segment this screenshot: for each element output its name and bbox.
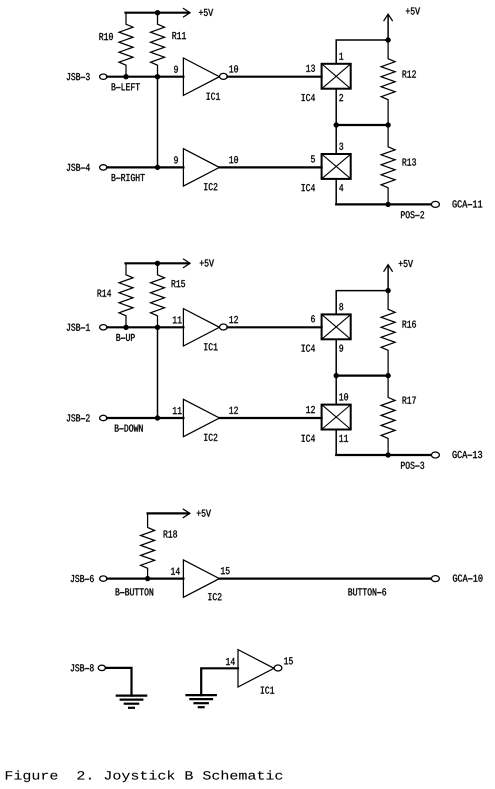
junction middle rail right [386,123,390,127]
pot element IC4 box (pin 12) [322,405,351,430]
+5V label (section 2 left) [200,260,214,267]
junction R14 bottom [124,325,128,329]
label GCA-10 [453,575,483,582]
net label POS-2 [401,211,424,218]
pin 8 label [339,303,343,310]
connector JSB-2 [100,415,107,420]
wire IC1 output to box pin 13 [227,76,321,78]
inverter IC1 [183,58,227,95]
wire box B bottom to output rail [335,429,337,455]
label JSB-3 [67,73,90,80]
wire JSB-2 to IC2 input [107,417,183,419]
resistor R12 [381,40,395,125]
pin 11 label [173,316,182,323]
net label B-LEFT [112,83,140,90]
junction +5V rail right [386,38,390,42]
pin 15 label [221,567,230,574]
wire JSB-6 to IC2 input [107,577,183,579]
inverter IC2 [183,399,219,436]
label IC1 (spare) [261,687,274,694]
wire inter-row vertical [157,327,159,418]
connector GCA-10 [431,576,439,582]
wire ground to IC1 input [201,668,238,695]
pin 5 label [311,155,315,162]
junction inter-row wire row B [155,165,159,169]
junction R15 top [155,261,159,265]
junction R11 bottom [155,75,159,79]
pin 4 label [339,184,343,191]
wire middle rail to box B top [335,376,337,405]
pin 12 label [306,406,315,413]
wire IC2 output to box pin 12 [219,417,321,419]
junction R18 bottom [145,576,149,580]
resistor R14 [119,263,133,327]
label R12 [403,70,416,77]
label IC1 [204,343,217,350]
+5V label (section 1 left) [199,9,213,16]
label IC2 (button) [208,593,221,600]
label IC2 [204,434,217,441]
label JSB-2 [67,414,90,421]
resistor R13 [381,125,395,204]
junction R17 bottom [386,453,390,457]
label IC1 [207,93,220,100]
junction R13 bottom [386,202,390,206]
label R14 [98,290,112,297]
pot element IC4 box (pin 13) [322,64,351,89]
connector JSB-3 [100,74,107,79]
ground (JSB-8) [117,696,146,708]
net label B-RIGHT [112,174,145,181]
net label B-BUTTON [116,588,154,595]
resistor R10 [119,13,133,77]
+5V label (section 2 right) [399,260,413,267]
label IC4 (upper box) [302,94,315,101]
junction middle rail right [386,373,390,377]
wire JSB-4 to IC2 input [107,166,183,168]
connector JSB-6 [100,576,107,581]
+5V power rail (section 1 left) [126,9,191,17]
net label B-DOWN [115,425,143,432]
label R11 [172,32,186,39]
junction inter-row wire row B [155,416,159,420]
wire JSB-8 to ground [106,668,132,696]
label IC4 (lower box) [302,435,315,442]
connector JSB-1 [100,325,107,330]
pin 12 label [229,407,238,414]
net label BUTTON-6 [348,588,386,595]
pin 2 label [339,94,343,101]
inverter IC2 [183,149,219,186]
resistor R15 [151,263,165,327]
connector JSB-4 [100,165,107,170]
label IC2 [204,183,217,190]
wire middle junction rail [336,375,388,377]
caption Figure 2. Joystick B Schematic [6,770,282,782]
+5V power rail (section 2 left) [126,259,191,267]
wire box top to +5V rail [336,40,388,64]
wire IC1 output to box pin 6 [227,326,321,328]
wire middle rail to box B top [335,125,337,154]
resistor R17 [381,376,395,455]
junction middle rail left [334,123,338,127]
label R10 [99,33,112,40]
pin 9 label [174,66,178,73]
label IC4 (upper box) [302,345,315,352]
+5V power arrow (section 1 right) [384,14,392,40]
wire box B bottom to output rail [335,179,337,205]
+5V label (section 3) [197,510,211,517]
label JSB-1 [67,324,90,331]
label R13 [403,158,416,165]
pin 1 label [339,53,343,60]
wire JSB-1 to IC1 input [107,326,183,328]
wire box top to +5V rail [336,291,388,315]
pin 10 label [229,156,238,163]
inverter IC1 (spare) [238,650,282,687]
resistor R11 [151,13,165,77]
pin 9 label [174,156,178,163]
pin 13 label [306,65,315,72]
resistor R16 [381,291,395,376]
label JSB-6 [71,575,94,582]
wire box A bottom to middle rail [335,89,337,125]
wire IC2 output to box pin 5 [219,166,321,168]
junction R10 bottom [124,75,128,79]
pin 11 label [173,407,182,414]
pin 14 label (spare IC1) [226,658,235,665]
label GCA-13 [452,451,482,458]
inverter IC2 (button) [183,560,219,597]
pin 10 label [339,393,348,400]
pot element IC4 box (pin 6) [322,314,351,339]
label R17 [403,397,416,404]
connector GCA-11 [431,201,439,207]
wire box A bottom to middle rail [335,339,337,375]
label R18 [164,530,177,537]
label IC4 (lower box) [302,184,315,191]
resistor R18 [141,513,155,578]
+5V label (section 1 right) [406,8,420,15]
label R16 [403,321,416,328]
wire IC2 output to GCA-10 [219,577,431,579]
inverter IC1 [183,309,227,346]
wire to GCA-11 [336,203,431,205]
label GCA-11 [452,200,482,207]
pin 10 label [229,65,238,72]
pot element IC4 box (pin 5) [322,154,351,179]
connector JSB-8 [98,665,105,670]
ground (IC1 input) [187,695,216,707]
label R15 [172,280,185,287]
wire JSB-3 to IC1 input [107,76,183,78]
connector GCA-13 [431,452,439,458]
junction middle rail left [334,373,338,377]
+5V power arrow (section 2 right) [384,265,392,291]
pin 9 label [339,345,343,352]
junction R15 bottom [155,325,159,329]
junction R11 top [155,11,159,15]
pin 14 label [171,568,180,575]
pin 3 label [339,143,343,150]
net label POS-3 [401,462,424,469]
junction +5V rail right [386,288,390,292]
+5V power rail (section 3) [148,509,190,517]
pin 6 label [311,315,315,322]
pin 12 label [229,316,238,323]
pin 15 label (spare IC1) [284,657,293,664]
wire inter-row vertical [157,77,159,168]
wire middle junction rail [336,124,388,126]
wire to GCA-13 [336,454,431,456]
pin 11 label [339,435,348,442]
label JSB-8 [71,664,94,671]
label JSB-4 [67,164,90,171]
net label B-UP [116,334,134,341]
